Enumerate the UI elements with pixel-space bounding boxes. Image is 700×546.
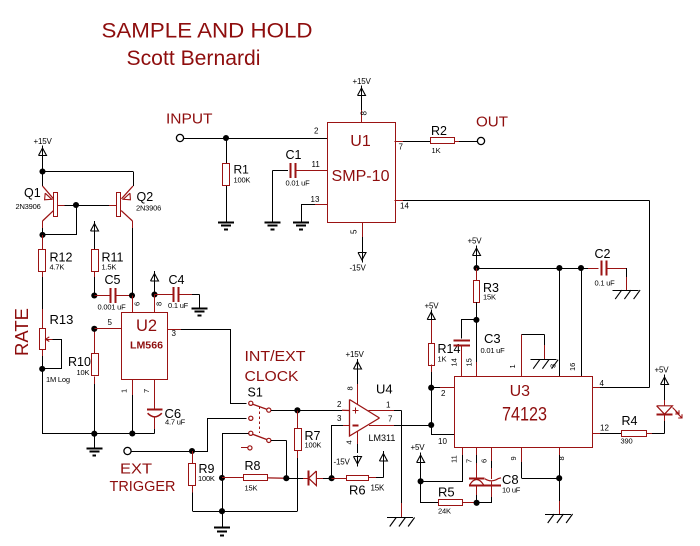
svg-text:LM566: LM566 — [130, 341, 163, 352]
svg-text:4.7K: 4.7K — [50, 263, 65, 272]
svg-text:390: 390 — [621, 437, 633, 446]
svg-text:0.1 uF: 0.1 uF — [595, 279, 616, 288]
svg-text:R1: R1 — [234, 163, 250, 177]
svg-text:2N3906: 2N3906 — [16, 202, 41, 211]
svg-text:2N3906: 2N3906 — [136, 204, 161, 213]
svg-text:INT/EXT: INT/EXT — [245, 348, 306, 365]
svg-text:0.01 uF: 0.01 uF — [286, 179, 311, 188]
svg-text:100K: 100K — [305, 441, 322, 450]
svg-text:C2: C2 — [595, 247, 611, 261]
svg-text:2: 2 — [441, 389, 446, 398]
svg-text:1.5K: 1.5K — [102, 263, 117, 272]
svg-text:5: 5 — [108, 318, 113, 327]
svg-text:0.001 uF: 0.001 uF — [98, 303, 127, 312]
svg-text:OUT: OUT — [476, 114, 508, 131]
svg-text:1: 1 — [508, 364, 517, 368]
svg-text:+5V: +5V — [468, 237, 483, 246]
svg-text:SAMPLE AND HOLD: SAMPLE AND HOLD — [102, 18, 313, 42]
svg-text:15K: 15K — [371, 484, 385, 493]
svg-text:U2: U2 — [136, 317, 157, 335]
svg-text:12: 12 — [600, 424, 609, 433]
svg-text:4.7 uF: 4.7 uF — [165, 418, 186, 427]
svg-text:TRIGGER: TRIGGER — [110, 478, 176, 495]
svg-text:10: 10 — [438, 437, 447, 446]
svg-text:7: 7 — [399, 143, 404, 152]
svg-text:10K: 10K — [77, 368, 90, 377]
svg-text:C5: C5 — [105, 273, 121, 287]
svg-text:R10: R10 — [68, 355, 91, 369]
svg-text:R8: R8 — [245, 459, 261, 473]
svg-text:9: 9 — [509, 456, 518, 460]
svg-text:SMP-10: SMP-10 — [332, 168, 390, 185]
svg-text:+15V: +15V — [34, 137, 53, 146]
svg-text:6: 6 — [480, 459, 489, 463]
svg-text:11: 11 — [450, 455, 459, 463]
svg-text:+5V: +5V — [425, 302, 440, 311]
svg-text:8: 8 — [360, 111, 369, 116]
svg-text:R13: R13 — [50, 312, 74, 327]
svg-text:RATE: RATE — [11, 308, 32, 356]
svg-text:1: 1 — [120, 389, 129, 393]
svg-text:15K: 15K — [483, 293, 496, 302]
svg-text:3: 3 — [337, 414, 342, 423]
svg-text:11: 11 — [312, 160, 321, 169]
svg-text:1K: 1K — [438, 355, 447, 364]
svg-text:13: 13 — [311, 195, 320, 204]
svg-text:74123: 74123 — [502, 405, 547, 426]
svg-text:R5: R5 — [438, 485, 455, 500]
svg-text:0.1 uF: 0.1 uF — [168, 301, 189, 310]
svg-text:U3: U3 — [510, 383, 531, 400]
svg-text:LM311: LM311 — [369, 433, 396, 443]
svg-text:R6: R6 — [349, 483, 366, 498]
svg-text:8: 8 — [557, 456, 566, 460]
svg-text:0.01 uF: 0.01 uF — [481, 346, 506, 355]
svg-text:16: 16 — [568, 363, 577, 371]
svg-text:+5V: +5V — [411, 443, 426, 452]
svg-text:2: 2 — [314, 127, 319, 136]
svg-text:Q1: Q1 — [24, 186, 41, 200]
svg-text:S1: S1 — [248, 386, 263, 400]
svg-text:3: 3 — [549, 364, 558, 368]
svg-text:+15V: +15V — [353, 77, 372, 86]
svg-text:2: 2 — [337, 400, 342, 409]
svg-text:15K: 15K — [245, 484, 258, 493]
svg-text:R4: R4 — [622, 414, 638, 428]
svg-text:1: 1 — [386, 401, 391, 410]
svg-text:24K: 24K — [438, 507, 451, 516]
svg-text:7: 7 — [465, 459, 474, 463]
svg-text:INPUT: INPUT — [166, 111, 213, 128]
svg-text:C3: C3 — [484, 331, 501, 346]
svg-text:-15V: -15V — [334, 458, 351, 467]
svg-text:U1: U1 — [350, 133, 371, 150]
svg-text:10 uF: 10 uF — [502, 486, 521, 495]
svg-text:14: 14 — [450, 358, 459, 366]
svg-text:4: 4 — [600, 379, 605, 388]
svg-text:7: 7 — [142, 389, 151, 393]
svg-text:U4: U4 — [376, 382, 393, 397]
svg-text:R2: R2 — [431, 124, 447, 138]
svg-text:14: 14 — [400, 202, 409, 211]
svg-text:Scott Bernardi: Scott Bernardi — [127, 46, 261, 70]
svg-text:EXT: EXT — [120, 461, 152, 478]
svg-text:CLOCK: CLOCK — [245, 368, 299, 385]
svg-text:C1: C1 — [286, 148, 302, 162]
svg-text:100K: 100K — [198, 474, 215, 483]
svg-text:8: 8 — [155, 302, 164, 306]
svg-text:4: 4 — [345, 440, 354, 444]
svg-text:3: 3 — [172, 329, 177, 338]
svg-text:+5V: +5V — [655, 366, 670, 375]
svg-text:Q2: Q2 — [137, 190, 154, 204]
svg-text:5: 5 — [350, 229, 359, 234]
svg-text:100K: 100K — [234, 176, 251, 185]
svg-text:C4: C4 — [169, 273, 185, 287]
svg-text:15: 15 — [465, 358, 474, 366]
svg-text:6: 6 — [133, 302, 142, 306]
svg-text:+15V: +15V — [346, 350, 365, 359]
svg-text:1M Log: 1M Log — [46, 375, 70, 384]
svg-text:-15V: -15V — [350, 264, 367, 273]
svg-text:1K: 1K — [432, 146, 441, 155]
svg-text:7: 7 — [388, 415, 393, 424]
svg-text:8: 8 — [346, 386, 355, 390]
